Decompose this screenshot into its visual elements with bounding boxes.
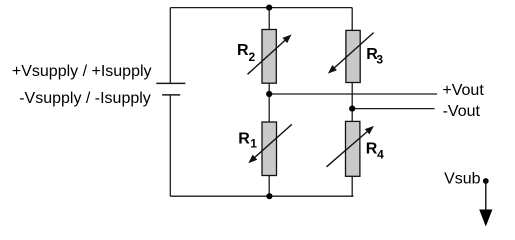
resistor R3 arrow: [328, 33, 374, 74]
battery V1 plate short (-): [162, 94, 180, 96]
svg-text:+Vsupply / +Isupply: +Vsupply / +Isupply: [12, 63, 152, 80]
resistor R3 body: [346, 30, 360, 82]
Vsub arrowhead: [479, 210, 492, 227]
wire R2 to node: [268, 83, 270, 94]
resistor R1 body: [262, 122, 277, 176]
wire +Vout: [269, 93, 437, 95]
svg-text:3: 3: [376, 52, 383, 66]
svg-text:4: 4: [377, 147, 384, 161]
wire right branch upper: [351, 8, 353, 31]
wire node to R1: [268, 94, 270, 122]
svg-text:1: 1: [250, 137, 257, 151]
wire bottom rail: [170, 195, 353, 197]
svg-text:2: 2: [249, 50, 256, 64]
wire Vsub stem: [485, 181, 487, 210]
wire -Vout: [352, 108, 434, 110]
node Vsub dot: [483, 178, 489, 184]
svg-text:R: R: [237, 42, 249, 59]
svg-text:R: R: [366, 140, 378, 157]
wire R1 to bottom rail: [268, 176, 270, 197]
svg-text:-Vout: -Vout: [443, 103, 481, 120]
svg-text:+Vout: +Vout: [442, 82, 484, 99]
resistor R1 arrow: [248, 124, 291, 163]
battery V1 plate long (+): [156, 82, 185, 84]
node junction top: [266, 5, 272, 11]
wire left lower: [169, 95, 171, 196]
resistor R4 arrow: [327, 126, 374, 167]
resistor R2 body: [262, 30, 276, 84]
resistor R4 body: [346, 121, 360, 176]
svg-text:Vsub: Vsub: [444, 171, 481, 188]
wire middle branch upper: [268, 8, 270, 30]
wire R4 to bottom rail: [351, 176, 353, 196]
wire R3 to R4: [351, 83, 353, 122]
node junction -Vout: [349, 106, 355, 112]
svg-text:R: R: [238, 130, 250, 147]
resistor R2 arrow: [248, 35, 292, 75]
wire left upper: [169, 8, 171, 84]
node junction +Vout: [266, 91, 272, 97]
node junction bottom: [266, 193, 272, 199]
svg-text:-Vsupply / -Isupply: -Vsupply / -Isupply: [19, 90, 151, 107]
wire top rail: [170, 7, 352, 9]
